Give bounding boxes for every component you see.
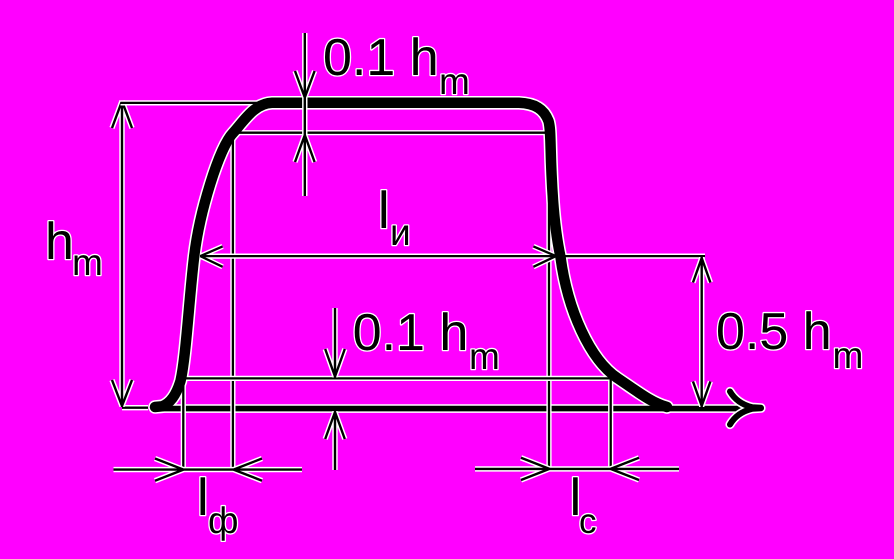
top 0.1 upper arrow (punches pulse top)	[295, 33, 315, 110]
text lc-l	[573, 477, 578, 515]
mid 0.1 lower arrow	[325, 411, 345, 470]
pulse curve black stroke	[155, 103, 667, 407]
text top-01h	[325, 37, 435, 75]
text 05h	[718, 311, 828, 349]
text li-i	[393, 226, 409, 246]
axis arrowhead	[730, 392, 761, 425]
hm dimension vertical with two arrowheads	[112, 101, 132, 408]
0.5 level / l_i dimension line with arrowheads	[200, 246, 705, 266]
axis (time axis)	[122, 407, 752, 410]
text lf-l	[201, 477, 206, 515]
text lf-f	[210, 506, 237, 541]
text li-l	[382, 190, 387, 228]
text hm-m	[75, 255, 101, 275]
text mid-m	[472, 349, 498, 369]
l_f dimension line and arrows	[114, 459, 303, 481]
text 05h-m	[835, 348, 861, 368]
0.5 hm vertical double arrow	[693, 257, 710, 407]
text hm-h	[49, 221, 71, 259]
0.9 level line	[234, 132, 549, 134]
text mid-01h	[355, 312, 465, 350]
0.1 level line with projection corner x=610.7	[179, 378, 611, 469]
text lc-c	[581, 514, 596, 533]
projection verticals x=183, x=233, x=549	[183, 140, 549, 470]
top 0.1 lower arrow	[295, 109, 315, 196]
hm level thin line	[121, 102, 270, 104]
mid 0.1 upper arrow	[325, 308, 345, 378]
pulse curve white halo (under thin lines)	[155, 103, 667, 407]
l_c dimension line and arrows	[475, 458, 679, 480]
text top-m	[442, 74, 468, 94]
